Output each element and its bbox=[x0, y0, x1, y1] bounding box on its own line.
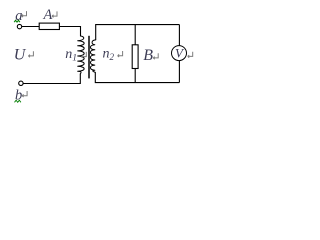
pilcrow after n2 bbox=[118, 51, 123, 57]
svg-text:U: U bbox=[14, 46, 27, 63]
svg-text:n2: n2 bbox=[103, 46, 115, 61]
pilcrow after voltmeter bbox=[188, 52, 193, 58]
wire secondary top bbox=[96, 25, 180, 40]
pilcrow after a bbox=[22, 11, 27, 17]
wire resistor branch bottom bbox=[134, 69, 136, 83]
wire ammeter to transformer top corner bbox=[59, 27, 80, 37]
svg-text:A: A bbox=[43, 7, 53, 23]
voltmeter V bbox=[172, 46, 187, 61]
spellcheck squiggle under a bbox=[14, 20, 20, 22]
secondary winding n2 bbox=[90, 40, 95, 73]
wire resistor branch top bbox=[134, 25, 136, 45]
svg-text:n1: n1 bbox=[65, 47, 77, 64]
wire voltmeter branch bottom bbox=[178, 60, 180, 82]
wire primary bottom bbox=[23, 74, 80, 84]
svg-text:B: B bbox=[143, 47, 153, 64]
pilcrow after A bbox=[52, 11, 57, 17]
pilcrow after b bbox=[22, 91, 27, 97]
wire a to ammeter bbox=[22, 26, 39, 28]
pilcrow after B bbox=[153, 53, 158, 59]
ammeter A box bbox=[39, 23, 59, 29]
wire voltmeter branch top bbox=[178, 25, 180, 46]
pilcrow after U bbox=[28, 51, 33, 57]
transformer core bar bbox=[88, 36, 90, 79]
terminal a bbox=[17, 24, 21, 28]
primary winding n1 bbox=[78, 36, 84, 74]
terminal b bbox=[19, 81, 23, 85]
wire secondary bottom bbox=[95, 72, 179, 82]
spellcheck squiggle under b bbox=[15, 100, 21, 102]
resistor B box bbox=[132, 45, 138, 69]
pilcrow after n1 bbox=[81, 52, 86, 58]
